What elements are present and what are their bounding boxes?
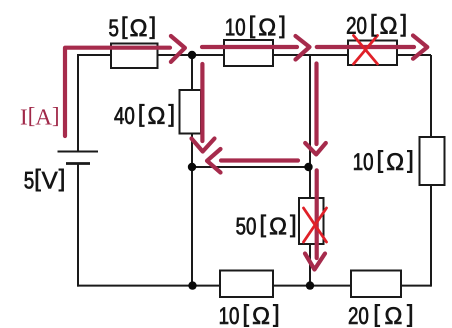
node dot top-left junction xyxy=(188,51,196,59)
resistor 10ohm right vertical xyxy=(420,137,445,185)
wire: bottom horizontal xyxy=(77,285,431,287)
current arrow 50ohm down shaft xyxy=(315,170,319,258)
wire: top horizontal xyxy=(78,54,431,56)
label 40 ohm xyxy=(114,104,173,126)
resistor 5ohm top-left xyxy=(111,44,158,69)
wire: left vertical below battery xyxy=(77,164,79,287)
resistor 20ohm top-right xyxy=(348,41,397,66)
X mark over 20ohm top resistor xyxy=(354,36,378,65)
current arrow right-branch down shaft xyxy=(314,64,318,145)
resistor 40ohm vertical xyxy=(180,90,202,134)
resistor 10ohm bottom-left xyxy=(220,271,273,298)
wire: middle horizontal xyxy=(192,166,309,168)
label 10 ohm right xyxy=(354,150,412,172)
wire: left vertical above battery xyxy=(77,54,79,152)
label I A current xyxy=(21,107,58,126)
current arrow I head xyxy=(171,36,185,62)
wire: middle-right branch vertical xyxy=(309,55,311,286)
X mark over 50ohm resistor xyxy=(304,208,327,242)
label 50 ohm xyxy=(236,215,295,237)
battery V1 short plate xyxy=(66,162,90,165)
current arrow 40ohm down shaft xyxy=(200,64,204,141)
current arrow 40ohm down head xyxy=(192,139,215,152)
current arrow top-middle shaft xyxy=(202,45,297,49)
resistor 50ohm vertical xyxy=(299,198,324,244)
current arrow top-right head xyxy=(413,36,427,59)
node dot middle-left junction xyxy=(188,163,196,171)
wire: right vertical xyxy=(430,55,432,287)
label 10 ohm bottom xyxy=(220,304,278,326)
current arrow top-right shaft xyxy=(317,45,414,49)
current arrow middle leftward head xyxy=(207,149,221,173)
label 20 ohm bottom xyxy=(349,304,412,326)
label 5 V battery xyxy=(25,169,64,191)
current arrow 50ohm down head xyxy=(305,254,325,270)
current arrow I path from battery xyxy=(65,48,170,136)
node dot middle-right junction xyxy=(304,163,312,171)
label 20 ohm top-right xyxy=(347,14,405,36)
node dot bottom-middle junction xyxy=(306,281,314,289)
label 10 ohm top-middle xyxy=(226,16,284,38)
node dot bottom-left junction xyxy=(188,281,196,289)
resistor 20ohm bottom-right xyxy=(351,271,401,298)
current arrow right-branch down head xyxy=(305,143,326,154)
current arrow middle leftward shaft xyxy=(221,158,298,162)
battery V1 long plate xyxy=(58,151,99,153)
resistor 10ohm top-middle xyxy=(224,40,273,66)
current arrow top-middle head xyxy=(296,36,310,60)
wire: middle-left branch vertical xyxy=(191,55,193,286)
label 5 ohm top-left xyxy=(109,17,154,39)
